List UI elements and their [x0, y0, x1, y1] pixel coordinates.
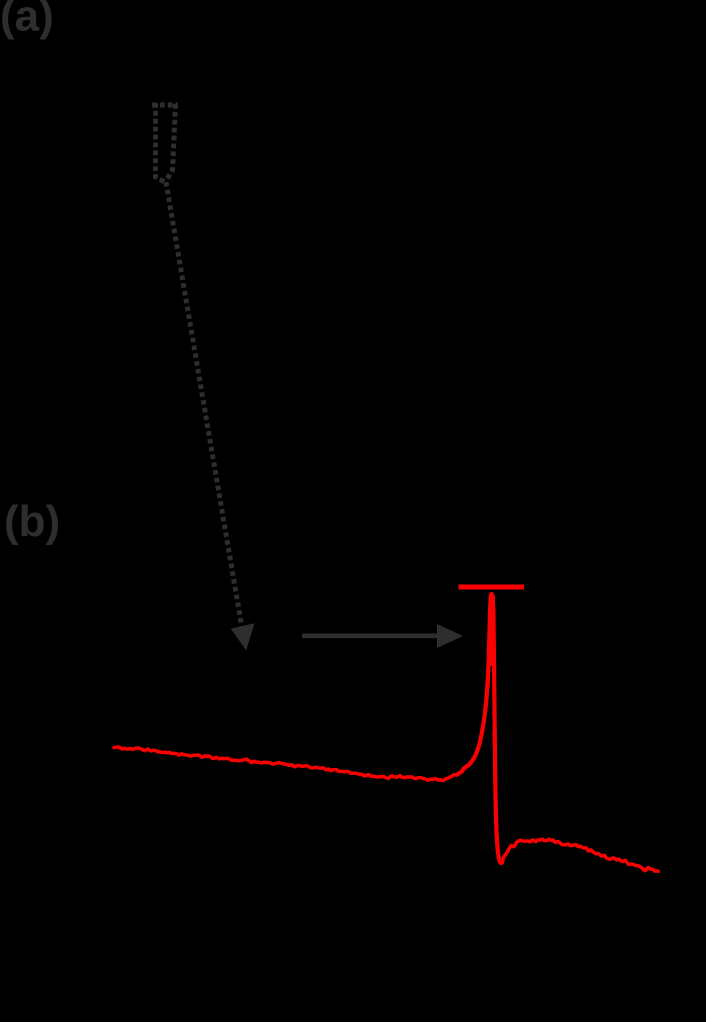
svg-text:(b): (b): [4, 497, 60, 546]
svg-text:(a): (a): [0, 0, 54, 41]
